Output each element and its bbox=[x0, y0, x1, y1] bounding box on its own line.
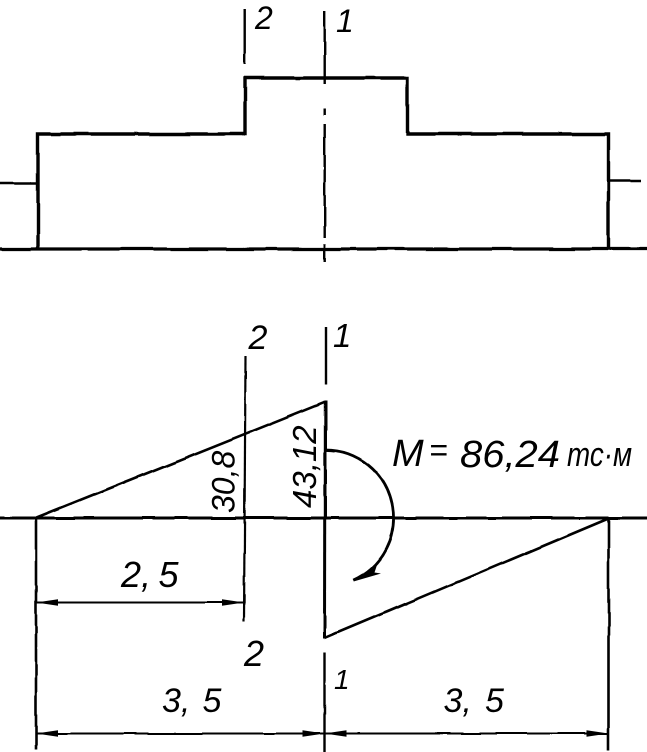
svg-text:тс·м: тс·м bbox=[567, 436, 632, 474]
svg-text:2: 2 bbox=[248, 319, 268, 357]
arrowhead 3,5 right-right bbox=[587, 730, 609, 737]
right moment triangle vertical edge on axis bbox=[323, 518, 326, 639]
right floor stub line bbox=[609, 180, 642, 183]
dimension line 3,5 right bbox=[325, 733, 609, 735]
svg-text:3,: 3, bbox=[444, 682, 472, 720]
moment diagram baseline bbox=[0, 517, 647, 520]
svg-text:5: 5 bbox=[203, 682, 222, 720]
svg-text:1: 1 bbox=[336, 3, 354, 39]
left extension line at x=36 bbox=[35, 518, 38, 750]
left moment triangle hypotenuse bbox=[37, 402, 326, 518]
right extension line at x=609 bbox=[607, 518, 610, 750]
dimension line 2,5 bbox=[36, 602, 244, 604]
moment arrow arc bbox=[326, 450, 394, 580]
right moment triangle hypotenuse bbox=[325, 519, 609, 639]
svg-text:3,: 3, bbox=[162, 682, 190, 720]
svg-text:M: M bbox=[392, 433, 424, 475]
arrowhead 2,5 left bbox=[36, 599, 58, 606]
arrowhead 3,5 left-right bbox=[303, 730, 325, 737]
axis 1 lower segment (moment diagram) bbox=[323, 653, 325, 752]
axis 1 centerline (upper view, dash-dot) bbox=[324, 11, 326, 262]
svg-text:5: 5 bbox=[159, 554, 180, 595]
left moment triangle vertical edge (43,12 ordinate) bbox=[324, 401, 327, 519]
axis 1 upper dash (moment diagram) bbox=[325, 327, 327, 385]
section line 2 (upper view) bbox=[243, 9, 245, 64]
ground baseline of upper section view bbox=[0, 247, 647, 250]
svg-text:2: 2 bbox=[254, 0, 273, 36]
moment arc arrowhead bbox=[354, 564, 382, 582]
arrowhead 2,5 right bbox=[222, 599, 244, 606]
svg-text:1: 1 bbox=[334, 664, 350, 695]
svg-text:5: 5 bbox=[485, 682, 504, 720]
svg-text:2,: 2, bbox=[120, 554, 151, 595]
dimension line 3,5 left bbox=[36, 733, 325, 735]
svg-text:=: = bbox=[429, 432, 448, 468]
svg-text:2: 2 bbox=[243, 633, 264, 674]
svg-text:1: 1 bbox=[333, 317, 351, 354]
arrowhead 3,5 right-left bbox=[325, 730, 347, 737]
left floor stub line bbox=[0, 182, 38, 185]
svg-text:43,12: 43,12 bbox=[286, 425, 323, 508]
arrowhead 3,5 left-left bbox=[36, 730, 58, 737]
foundation outline (stepped cross-section) bbox=[38, 78, 609, 249]
section line 2 (moment diagram) bbox=[244, 356, 246, 621]
svg-text:86,24: 86,24 bbox=[460, 434, 560, 476]
svg-text:30,8: 30,8 bbox=[206, 451, 242, 513]
